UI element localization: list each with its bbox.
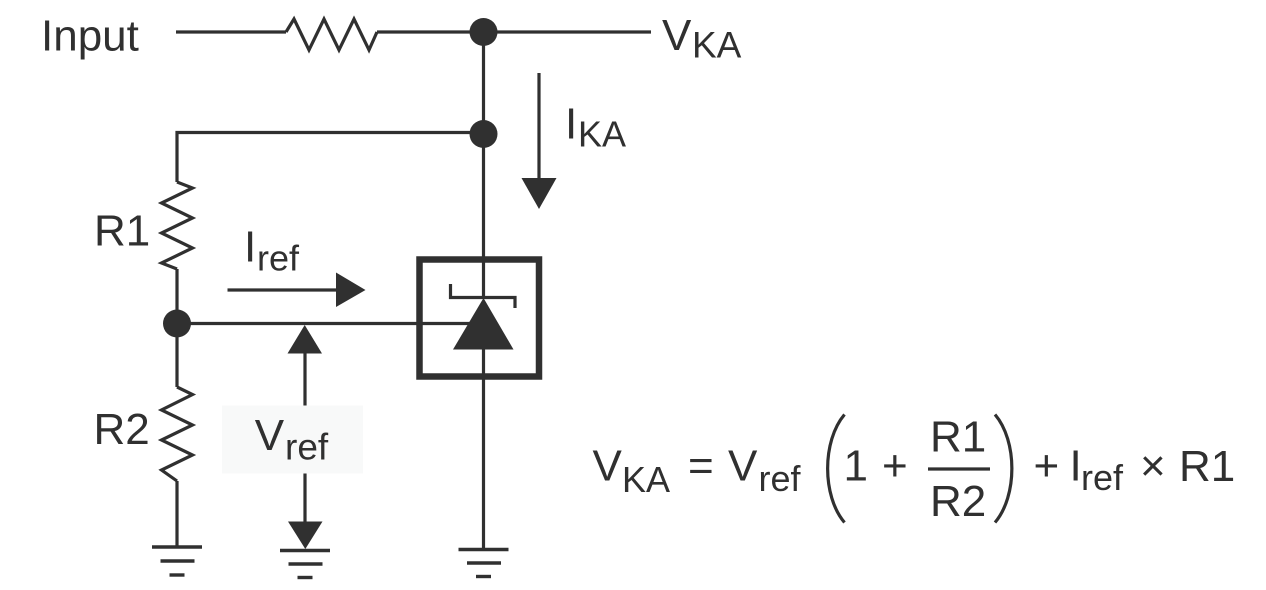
equation Iref term [1070, 442, 1125, 499]
arrow Vref shaft [303, 353, 306, 522]
svg-text:+: + [1034, 442, 1060, 491]
wire Input to series resistor [176, 30, 286, 33]
ground (below U1) [459, 550, 509, 577]
svg-text:KA: KA [578, 114, 626, 155]
svg-text:ref: ref [1081, 457, 1124, 498]
resistor R1 [162, 182, 193, 269]
svg-text:1: 1 [844, 442, 868, 491]
label Iref [244, 223, 300, 279]
U1 cathode bar [451, 284, 516, 308]
arrow Vref upper head [288, 325, 323, 354]
svg-text:×: × [1140, 442, 1166, 491]
Vref label background box [222, 406, 363, 474]
wire anode of U1 to ground [482, 350, 485, 550]
label IKA [565, 100, 626, 155]
equation Vref term [728, 442, 802, 500]
svg-text:R1: R1 [1179, 442, 1235, 491]
wire node B to R1 top [177, 133, 484, 183]
svg-text:=: = [688, 442, 714, 491]
wire node B to cathode of U1 [482, 134, 485, 298]
op-amp U1 shunt regulator box [420, 260, 540, 377]
svg-text:V: V [662, 11, 692, 60]
equation 1 + [844, 442, 908, 491]
svg-text:KA: KA [692, 25, 742, 66]
svg-text:I: I [244, 223, 256, 272]
equation left parenthesis [828, 415, 845, 523]
resistor R2 [162, 387, 193, 481]
svg-text:V: V [728, 442, 758, 491]
svg-text:V: V [593, 442, 623, 491]
equation right parenthesis [995, 415, 1012, 523]
wire node C to R2 top [175, 324, 178, 388]
wire R1 to node C [175, 269, 178, 324]
node A (top junction) [470, 18, 498, 46]
equation VKA term [593, 442, 671, 501]
svg-text:I: I [565, 100, 577, 149]
svg-text:KA: KA [622, 459, 670, 500]
U1 anode triangle [453, 298, 514, 350]
svg-text:R2: R2 [94, 405, 150, 454]
svg-text:R2: R2 [930, 477, 986, 526]
svg-text:+: + [882, 442, 908, 491]
arrow Vref lower head [288, 522, 323, 550]
label VKA [662, 11, 742, 66]
svg-text:I: I [1070, 442, 1082, 491]
svg-text:ref: ref [759, 458, 802, 499]
svg-text:Input: Input [41, 12, 139, 61]
current arrow IKA [522, 73, 557, 209]
wire node C to reference pin of U1 [177, 322, 478, 325]
node B (feedback junction) [470, 120, 498, 148]
svg-text:R1: R1 [94, 207, 150, 256]
svg-text:R1: R1 [930, 413, 986, 462]
wire node A to node B [482, 32, 485, 134]
resistor (series input resistor) [286, 19, 377, 50]
svg-text:ref: ref [285, 427, 329, 468]
svg-text:V: V [255, 411, 285, 460]
current arrow Iref [228, 273, 366, 308]
wire resistor to VKA lead [377, 30, 651, 33]
node C (R1/R2 junction, reference node) [163, 310, 191, 338]
label Vref [255, 411, 329, 468]
equation fraction bar [928, 467, 990, 470]
wire R2 to ground [175, 481, 178, 548]
svg-text:ref: ref [257, 238, 300, 279]
ground (below Vref arrow) [280, 551, 330, 578]
ground (below R2) [152, 547, 202, 575]
